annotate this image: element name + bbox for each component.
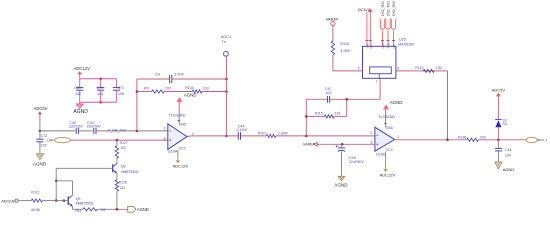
svg-text:22uF/25V: 22uF/25V: [69, 125, 84, 129]
svg-text:133: 133: [335, 111, 341, 115]
svg-text:4.99K: 4.99K: [340, 49, 350, 53]
svg-text:R136: R136: [458, 135, 466, 139]
svg-text:102: 102: [120, 146, 126, 150]
svg-text:AGND: AGND: [334, 182, 348, 187]
svg-text:133: 133: [119, 186, 125, 190]
svg-text:2: 2: [164, 126, 166, 130]
svg-text:R3: R3: [144, 87, 149, 91]
svg-text:103: 103: [203, 87, 209, 91]
svg-text:MMBT5551L: MMBT5551L: [121, 170, 139, 174]
svg-text:ADC12V: ADC12V: [380, 173, 396, 178]
svg-text:3: 3: [358, 66, 360, 70]
svg-text:U10A: U10A: [168, 148, 178, 153]
svg-text:TL032AD: TL032AD: [169, 112, 186, 117]
svg-text:Q8: Q8: [121, 165, 126, 169]
svg-text:22uF/50V: 22uF/50V: [87, 125, 102, 129]
svg-text:AGND: AGND: [503, 167, 515, 172]
svg-text:104: 104: [97, 92, 103, 96]
svg-text:Tx: Tx: [222, 39, 226, 44]
svg-text:R111: R111: [31, 191, 39, 195]
svg-text:VAREF: VAREF: [326, 16, 340, 21]
svg-text:2.32M: 2.32M: [278, 131, 288, 135]
svg-text:48.9K: 48.9K: [31, 208, 41, 212]
svg-text:U25: U25: [399, 36, 407, 41]
svg-text:C4: C4: [155, 72, 160, 76]
svg-text:AGND: AGND: [73, 109, 88, 115]
svg-text:ADCEN: ADCEN: [1, 199, 15, 203]
svg-text:233: 233: [480, 135, 486, 139]
svg-text:DC3V3: DC3V3: [358, 8, 370, 12]
svg-text:102: 102: [326, 91, 332, 95]
svg-text:C48: C48: [505, 148, 511, 152]
svg-text:C69: C69: [74, 86, 81, 90]
svg-text:102: 102: [41, 143, 47, 147]
svg-text:ADC12V: ADC12V: [173, 164, 189, 169]
svg-text:102: 102: [75, 92, 81, 96]
svg-text:ADC5V: ADC5V: [492, 88, 506, 93]
svg-text:AGND: AGND: [390, 100, 403, 105]
svg-text:EN: EN: [369, 44, 373, 48]
svg-text:R115: R115: [315, 111, 323, 115]
svg-text:AGND: AGND: [137, 207, 149, 212]
svg-text:GND: GND: [386, 126, 394, 130]
svg-text:3: 3: [164, 136, 166, 140]
svg-text:TL032AD: TL032AD: [378, 114, 395, 119]
svg-text:106: 106: [118, 92, 124, 96]
svg-text:MMBT5551L: MMBT5551L: [76, 202, 94, 206]
svg-text:#_GB_203: #_GB_203: [108, 128, 126, 132]
svg-text:R11: R11: [76, 209, 82, 213]
svg-text:ADC_1: ADC_1: [538, 138, 548, 142]
svg-text:MAX6160: MAX6160: [398, 43, 414, 47]
svg-text:Q9: Q9: [76, 197, 81, 201]
svg-text:C70: C70: [96, 86, 103, 90]
svg-text:ADC12V: ADC12V: [74, 66, 90, 71]
svg-text:DS2_RX1: DS2_RX1: [387, 1, 391, 16]
svg-text:22uF/50V: 22uF/50V: [349, 160, 364, 164]
svg-text:DS2_RX2: DS2_RX2: [392, 1, 396, 16]
svg-text:134: 134: [436, 66, 442, 70]
svg-text:R107: R107: [258, 131, 266, 135]
svg-text:C71: C71: [117, 86, 124, 90]
svg-text:R127: R127: [120, 141, 128, 145]
svg-text:0.47uF: 0.47uF: [237, 128, 248, 132]
svg-text:GND: GND: [179, 123, 187, 127]
svg-text:2: 2: [371, 131, 373, 135]
svg-text:1: 1: [397, 135, 399, 139]
svg-text:ADC5V: ADC5V: [34, 106, 48, 111]
svg-text:1: 1: [192, 132, 194, 136]
svg-text:ADJ: ADJ: [387, 42, 391, 48]
svg-text:DS2_RX0: DS2_RX0: [381, 1, 385, 16]
svg-text:OUT: OUT: [381, 42, 385, 49]
svg-text:R104: R104: [185, 86, 194, 90]
svg-text:6: 6: [397, 66, 399, 70]
svg-text:102: 102: [100, 208, 106, 212]
svg-text:AGND: AGND: [33, 161, 47, 166]
svg-text:3.9nF: 3.9nF: [174, 72, 184, 76]
svg-text:U10B: U10B: [376, 151, 386, 156]
svg-text:104: 104: [505, 153, 511, 157]
svg-text:R119: R119: [415, 66, 423, 70]
svg-text:102: 102: [165, 87, 171, 91]
svg-text:VCC: VCC: [179, 147, 187, 151]
svg-text:R126: R126: [119, 180, 127, 184]
svg-text:R118: R118: [340, 42, 349, 46]
svg-text:VCC: VCC: [386, 148, 394, 152]
